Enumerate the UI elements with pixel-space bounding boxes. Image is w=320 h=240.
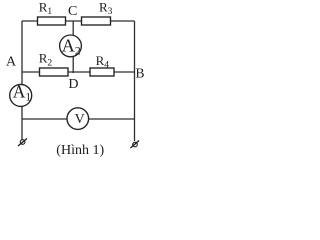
wire left vertical A branch — [21, 21, 23, 140]
svg-text:C: C — [68, 4, 77, 19]
svg-text:D: D — [68, 77, 78, 92]
wire top rail A-C-B — [22, 20, 135, 22]
resistor R2 — [40, 68, 69, 76]
terminal left — [18, 139, 27, 147]
resistor R3 — [82, 17, 111, 25]
svg-text:A: A — [6, 55, 17, 70]
svg-text:B: B — [136, 65, 145, 80]
wire bridge branch C-D — [72, 21, 74, 73]
svg-text:V: V — [75, 112, 85, 127]
ammeter A1 — [10, 84, 32, 106]
resistor R4 — [90, 68, 114, 76]
wire middle rail A-D-B — [22, 71, 135, 73]
ammeter A2 — [60, 35, 82, 57]
voltmeter V — [67, 108, 89, 130]
wire right vertical B branch — [134, 21, 136, 141]
svg-text:(Hình 1): (Hình 1) — [56, 143, 104, 158]
resistor R1 — [38, 17, 66, 25]
terminal right — [131, 141, 140, 149]
wire voltmeter row — [22, 118, 135, 120]
